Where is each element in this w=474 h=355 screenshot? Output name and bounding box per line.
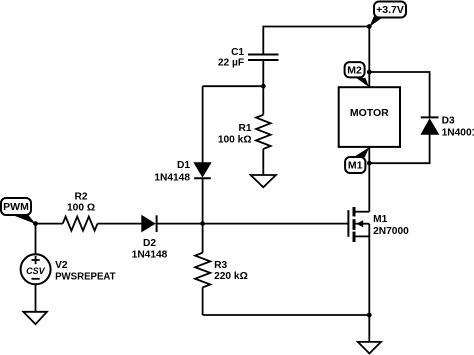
svg-text:1N4148: 1N4148 — [132, 250, 168, 261]
wire top rail C1 to +3.7V — [263, 27, 369, 55]
svg-text:PWSREPEAT: PWSREPEAT — [55, 272, 116, 283]
wire D1 rail top — [202, 86, 204, 163]
drain lead — [356, 211, 370, 213]
resistor R1 — [218, 115, 271, 149]
svg-text:V2: V2 — [55, 260, 68, 271]
wire source node to ground — [368, 315, 370, 342]
net label M2 — [345, 62, 369, 87]
wire R1 bottom to ground — [262, 149, 264, 175]
wire node to MOSFET gate — [203, 223, 348, 225]
svg-text:R2: R2 — [74, 192, 87, 203]
wire R2 to D2 — [98, 223, 142, 225]
wire PWM node down to V2 — [35, 224, 37, 255]
node +3.7V junction — [367, 24, 372, 29]
wire bottom rail — [203, 314, 370, 316]
ground (bottom right) — [358, 342, 381, 354]
wire D2 to node gate row — [157, 223, 203, 225]
diode D3 — [421, 116, 474, 139]
wire R1 junction to R1 top — [262, 86, 264, 115]
svg-text:D2: D2 — [143, 238, 156, 249]
gate bar — [347, 210, 349, 237]
net label PWM — [1, 198, 36, 224]
channel segment top — [353, 207, 356, 217]
svg-text:220 kΩ: 220 kΩ — [214, 271, 248, 282]
svg-text:D1: D1 — [177, 160, 190, 171]
svg-text:100 Ω: 100 Ω — [67, 203, 95, 214]
node D1/D2/R3 junction — [200, 221, 205, 226]
svg-text:R3: R3 — [214, 260, 227, 271]
svg-text:PWM: PWM — [3, 201, 29, 213]
svg-text:CSV: CSV — [26, 266, 46, 276]
svg-text:R1: R1 — [238, 123, 251, 134]
svg-text:+3.7V: +3.7V — [376, 4, 404, 16]
resistor R2 — [63, 192, 98, 231]
svg-text:MOTOR: MOTOR — [350, 107, 389, 119]
source V2 — [21, 254, 117, 284]
wire motor bottom to MOSFET drain — [368, 147, 370, 212]
wire +3.7V node down to motor — [368, 27, 370, 88]
body lead with arrow — [356, 223, 370, 225]
svg-text:M2: M2 — [347, 64, 362, 76]
svg-text:M1: M1 — [373, 214, 387, 225]
net label +3.7V — [370, 2, 407, 27]
wire D1 to gate-row junction — [202, 178, 204, 223]
svg-text:1N4001: 1N4001 — [442, 128, 474, 139]
svg-text:1N4148: 1N4148 — [154, 172, 190, 183]
diode D1 — [154, 160, 210, 184]
node PWM junction — [33, 221, 38, 226]
svg-text:22 µF: 22 µF — [218, 58, 244, 69]
svg-text:C1: C1 — [231, 47, 244, 58]
wire junction left to D1 rail — [203, 85, 264, 87]
resistor R3 — [195, 253, 248, 288]
motor M — [339, 87, 400, 147]
ground (below V2) — [23, 312, 47, 324]
svg-text:100 kΩ: 100 kΩ — [218, 134, 252, 145]
ground (below R1) — [251, 175, 276, 187]
node C1/R1 junction — [261, 84, 266, 89]
wire MOSFET source to bottom rail — [368, 224, 370, 315]
wire D3 bottom to M1 node — [369, 134, 429, 163]
wire C1 bottom to junction — [262, 60, 264, 86]
source lead — [356, 235, 370, 237]
channel segment bottom — [353, 232, 356, 242]
wire PWM node to R2 — [36, 223, 63, 225]
diode D2 — [132, 215, 168, 260]
wire junction down to R3 — [202, 224, 204, 253]
wire V2 to ground — [35, 284, 37, 312]
node source/ground junction — [367, 313, 372, 318]
svg-text:D3: D3 — [442, 116, 455, 127]
net label M1 — [345, 147, 369, 173]
node M1 junction — [367, 161, 372, 166]
svg-text:2N7000: 2N7000 — [373, 226, 409, 237]
channel segment middle — [353, 219, 356, 230]
wire M2 node to D3 branch — [369, 72, 429, 117]
node M2 junction — [367, 70, 372, 75]
wire R3 to bottom rail — [202, 287, 204, 315]
capacitor C1 — [218, 47, 279, 69]
svg-text:M1: M1 — [348, 160, 363, 172]
transistor M1 (2N7000 MOSFET) — [348, 207, 409, 242]
